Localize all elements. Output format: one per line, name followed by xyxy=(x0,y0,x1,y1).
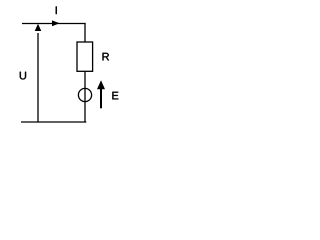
source E (circle with line through) xyxy=(78,88,91,101)
resistor R (box) xyxy=(77,42,93,71)
voltage arrow U head (pointing up at top wire) xyxy=(35,24,42,31)
EMF arrow E shaft (bold up arrow) xyxy=(100,89,102,109)
label E xyxy=(112,92,118,100)
label R xyxy=(103,53,110,61)
wire: right vertical from top wire to resistor xyxy=(84,23,86,42)
wire: top conductor xyxy=(22,23,86,25)
current arrow I (arrowhead on top wire) xyxy=(52,20,60,26)
label U xyxy=(20,72,26,80)
voltage arrow U shaft (left vertical) xyxy=(37,33,39,122)
EMF arrow E head xyxy=(97,80,105,89)
wire: right vertical from resistor through source to bottom wire xyxy=(84,71,86,122)
label I xyxy=(56,6,57,14)
wire: bottom conductor xyxy=(21,121,86,123)
